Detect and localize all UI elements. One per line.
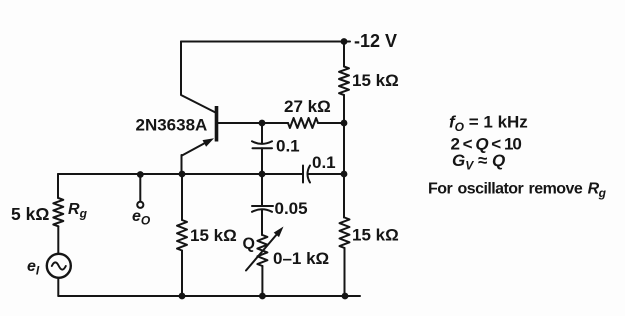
node right rail mid level xyxy=(341,171,348,178)
node ground rail / right leg xyxy=(342,293,349,300)
node mid rail / twin-T centre xyxy=(259,171,266,178)
capacitor C1 0.1 (shunt) xyxy=(252,141,272,148)
svg-text:eO: eO xyxy=(132,208,151,228)
wire base node to R2 xyxy=(262,122,288,124)
svg-text:0–1 kΩ: 0–1 kΩ xyxy=(273,249,329,268)
capacitor C3 0.05 xyxy=(252,206,273,212)
wire mid node down to C3 xyxy=(261,174,263,206)
wire right rail mid level to R4 xyxy=(343,174,345,218)
resistor R2 27 kOhm feedback xyxy=(288,118,318,128)
resistor R1 15 kOhm (supply to base) xyxy=(339,67,349,96)
wire R3 to ground rail xyxy=(181,251,183,297)
variable resistor R5 0-1 kOhm (Q adjust) xyxy=(246,227,284,271)
wire Rg to source xyxy=(57,226,59,254)
resistor Rg 5 kOhm xyxy=(53,198,63,226)
node right rail at base level xyxy=(341,120,348,127)
wire source to ground rail xyxy=(57,278,59,296)
node ground rail / twin-T leg xyxy=(259,293,266,300)
node ground rail / emitter leg xyxy=(179,293,186,300)
wire output stub xyxy=(139,175,141,202)
svg-text:2N3638A: 2N3638A xyxy=(136,116,208,135)
wire R2 to right rail xyxy=(318,122,344,124)
wire variable resistor to ground rail xyxy=(261,266,263,296)
wire top supply rail xyxy=(181,41,350,43)
svg-text:0.1: 0.1 xyxy=(312,153,336,172)
wire C3 to variable resistor xyxy=(261,210,263,235)
svg-text:15 kΩ: 15 kΩ xyxy=(190,226,237,245)
wire C1 to mid rail xyxy=(261,148,263,174)
resistor R3 15 kOhm (emitter) xyxy=(177,220,187,251)
svg-text:5 kΩ: 5 kΩ xyxy=(11,204,49,224)
wire right rail supply to R1 xyxy=(343,42,345,67)
wire mid rail right section xyxy=(309,173,345,175)
wire mid rail to Rg xyxy=(57,174,59,198)
wire R4 to ground rail xyxy=(344,248,346,296)
node emitter junction on mid rail xyxy=(179,171,186,178)
svg-text:15 kΩ: 15 kΩ xyxy=(352,71,399,90)
wire right rail base level to mid level xyxy=(343,123,345,174)
svg-text:eI: eI xyxy=(27,258,40,278)
wire mid rail left section xyxy=(58,173,303,175)
svg-text:Q: Q xyxy=(243,236,255,253)
terminal eO open circle xyxy=(137,202,143,208)
svg-text:Rg: Rg xyxy=(68,201,88,221)
svg-text:0.1: 0.1 xyxy=(276,137,300,156)
source eI sine generator xyxy=(47,254,71,278)
wire emitter node to R3 xyxy=(181,174,183,220)
svg-text:GV ≈ Q: GV ≈ Q xyxy=(452,151,505,173)
wire bottom ground rail xyxy=(58,295,360,297)
transistor Q1 2N3638A xyxy=(182,106,217,156)
node base / feedback junction xyxy=(259,120,266,127)
wire collector riser xyxy=(181,42,216,113)
wire R1 to base node xyxy=(343,95,345,123)
capacitor C2 0.1 (series, coupling) xyxy=(303,166,310,183)
svg-text:For oscillator remove Rg: For oscillator remove Rg xyxy=(428,181,607,201)
wire base xyxy=(218,122,262,124)
svg-text:27 kΩ: 27 kΩ xyxy=(284,97,331,116)
node supply -12V junction xyxy=(341,38,348,45)
svg-text:-12 V: -12 V xyxy=(354,31,397,51)
node output tap xyxy=(137,171,144,178)
svg-text:fO = 1 kHz: fO = 1 kHz xyxy=(449,113,528,135)
wire emitter riser xyxy=(181,155,183,174)
svg-text:0.05: 0.05 xyxy=(275,199,308,218)
svg-text:15 kΩ: 15 kΩ xyxy=(352,226,399,245)
resistor R4 15 kOhm (right leg) xyxy=(340,218,350,249)
wire base node down to C1 xyxy=(261,123,263,144)
